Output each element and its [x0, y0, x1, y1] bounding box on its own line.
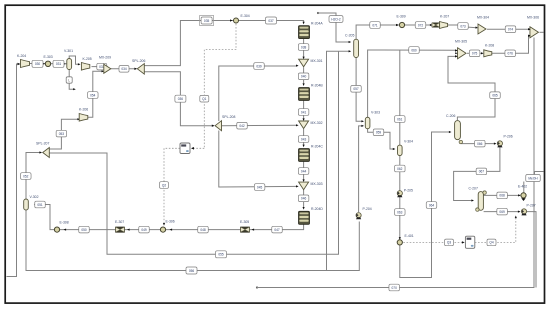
wire E-401 to C-206 feed: [400, 132, 451, 278]
svg-text:041: 041: [301, 110, 307, 114]
stream tag 040: [298, 73, 309, 80]
stream tag 048: [198, 226, 209, 233]
stream tag 056: [186, 267, 197, 274]
wire MX-301 to R-204B: [303, 67, 305, 85]
svg-text:E-401: E-401: [405, 234, 414, 238]
svg-text:MX-301: MX-301: [311, 59, 323, 63]
svg-text:071: 071: [372, 23, 378, 27]
svg-text:056: 056: [189, 269, 195, 273]
svg-text:K-205: K-205: [83, 57, 92, 61]
stream tag 072: [415, 22, 426, 29]
svg-text:C-206: C-206: [446, 114, 455, 118]
wire SPL-207 to C-205 feed: [49, 51, 338, 254]
wire SPL-208 to MX-303: [219, 131, 298, 188]
wire C-205 overhead to E-309: [356, 25, 398, 40]
wire R-204C to MX-303: [303, 155, 305, 181]
stream tag 068: [497, 192, 508, 199]
wire C-207 overhead to E-402: [484, 194, 520, 196]
svg-text:Q2: Q2: [162, 183, 166, 187]
stream tag 042: [237, 122, 248, 129]
wire K-204 to V-301 via 030 E-303 031: [30, 63, 67, 65]
stream tag 047: [272, 226, 283, 233]
compressor K-204: [21, 60, 30, 68]
svg-text:044: 044: [301, 169, 307, 173]
svg-text:V-301: V-301: [64, 49, 73, 53]
wire R-204A to MX-301: [303, 32, 305, 58]
wire V-302 vapor to SPL-207: [26, 153, 41, 199]
svg-text:052: 052: [23, 174, 29, 178]
stream tag 059: [373, 129, 384, 136]
wire fresh feed to K-204: [7, 64, 20, 277]
svg-text:057: 057: [353, 87, 359, 91]
stream tag 052: [21, 173, 32, 180]
svg-text:072: 072: [418, 23, 424, 27]
wire V-301 vapor to K-205: [69, 56, 79, 64]
svg-text:E-303: E-303: [44, 55, 53, 59]
column C-205: [354, 39, 359, 57]
valve E-307: [115, 227, 125, 233]
svg-text:046: 046: [301, 197, 307, 201]
splitter SPL-206: [137, 64, 144, 75]
reactor R-204B: [299, 88, 310, 101]
letdown box L on V-301 liquid: [66, 77, 72, 83]
compressor K-205: [81, 63, 89, 71]
mixer MX-209: [104, 64, 111, 73]
wire SPL-208 to MX-301: [219, 66, 298, 121]
stream tag 057: [351, 86, 362, 93]
mixer MX-302: [299, 121, 309, 129]
stream tag 053: [56, 130, 67, 137]
cooler E-402: [521, 193, 526, 198]
mixer MX-306: [530, 27, 539, 38]
wire V-303 vapor to MX-305: [368, 50, 457, 117]
svg-text:069: 069: [499, 210, 505, 214]
stream tag 054: [88, 92, 99, 99]
svg-text:E-308: E-308: [60, 221, 69, 225]
svg-text:K-207: K-207: [440, 15, 449, 19]
wire K-206 to MX-209 lower input: [88, 71, 103, 117]
svg-text:E-402: E-402: [518, 184, 527, 188]
wire controller to P-207 energy: [475, 217, 516, 243]
energy tag Q3: [445, 239, 454, 246]
svg-text:E-307: E-307: [115, 220, 124, 224]
wire MeOH product to border: [535, 172, 544, 175]
wire V-301 liquid purge: [69, 70, 74, 90]
wire controller to E-306 energy: [164, 148, 180, 224]
svg-text:040: 040: [301, 75, 307, 79]
energy tag Q2: [160, 182, 169, 189]
stream tag 049: [139, 226, 150, 233]
flash drum V-302: [24, 199, 29, 210]
svg-text:V-302: V-302: [30, 195, 39, 199]
svg-text:049: 049: [141, 228, 147, 232]
wire K-208 to MX-306 via 076: [492, 36, 530, 54]
wire MX-304 to MX-306 via 074: [487, 28, 530, 30]
svg-text:060: 060: [411, 48, 417, 52]
stream tag 069: [497, 208, 508, 215]
mixer MX-303: [299, 182, 309, 190]
wire C-206 overhead recycle to MX-305: [448, 56, 495, 120]
stream tag 033: [97, 63, 107, 70]
svg-text:048: 048: [200, 228, 206, 232]
node recycle stream origin: [256, 286, 258, 288]
wire SPL-207 to K-206: [49, 119, 78, 149]
wire P-204 to V-303 lower input: [359, 126, 363, 212]
wire MX-302 to R-204C: [303, 129, 305, 146]
svg-text:034: 034: [121, 67, 127, 71]
svg-text:Q3: Q3: [447, 241, 451, 245]
svg-text:075: 075: [472, 52, 478, 56]
svg-text:043: 043: [301, 137, 307, 141]
wire recycle riser to C-205 lower feed: [327, 51, 351, 270]
stream tag 066: [475, 140, 486, 147]
svg-text:H2O-2: H2O-2: [331, 17, 341, 21]
svg-text:068: 068: [499, 194, 505, 198]
valve before K-207: [432, 22, 440, 27]
stream tag 037: [266, 17, 277, 24]
svg-text:R-204C: R-204C: [311, 144, 323, 148]
svg-text:061: 061: [397, 117, 403, 121]
wire P-207 outlet down: [527, 212, 537, 288]
heater E-401: [397, 240, 402, 245]
svg-text:062: 062: [397, 167, 403, 171]
stream tag 031: [53, 60, 64, 67]
node H2O-2 feed origin: [317, 12, 319, 14]
wire SPL-206 to R-204A top via E-304: [144, 21, 304, 66]
svg-text:MX-303: MX-303: [311, 182, 323, 186]
stream tag MeOH: [526, 175, 541, 182]
svg-text:P-207: P-207: [527, 203, 536, 207]
svg-text:074: 074: [508, 27, 514, 31]
wire V-304 vapor to MX-305 line: [399, 50, 401, 146]
stream tag 076: [505, 50, 516, 57]
svg-text:036: 036: [178, 97, 184, 101]
svg-text:K-204: K-204: [17, 54, 26, 58]
stream tag 061: [395, 116, 406, 123]
svg-text:R-204A: R-204A: [311, 21, 323, 25]
wire V-304 bottoms to E-401 via P-205: [399, 155, 401, 240]
wire V-302 bottoms to P-204: [26, 211, 359, 271]
svg-text:E-309: E-309: [397, 15, 406, 19]
svg-text:P-206: P-206: [504, 135, 513, 139]
wire C-205 bottoms to V-303 upper input: [356, 58, 363, 122]
stream tag 065: [490, 92, 501, 99]
wire K-207 to MX-304 via 073: [448, 25, 477, 28]
energy tag Q4: [487, 239, 496, 246]
wire energy into controller unit: [192, 147, 204, 149]
heater E-308: [54, 227, 59, 232]
valve E-305: [240, 227, 250, 233]
stream tag 039: [254, 63, 265, 70]
svg-text:E-304: E-304: [241, 14, 250, 18]
svg-text:053: 053: [59, 132, 65, 136]
wire energy stream E-401 to controller: [403, 241, 463, 243]
stream tag 070: [389, 284, 400, 291]
svg-text:076: 076: [508, 52, 514, 56]
svg-text:055: 055: [218, 253, 224, 257]
stream tag 045: [254, 184, 265, 191]
svg-text:MX-305: MX-305: [455, 40, 467, 44]
svg-text:063: 063: [397, 210, 403, 214]
energy tag Q1: [200, 95, 209, 102]
cooler E-309: [399, 22, 404, 27]
reboiler circle of C-207: [476, 208, 479, 211]
cooler E-303: [45, 61, 50, 66]
splitter SPL-207: [43, 148, 50, 158]
svg-text:037: 037: [268, 19, 274, 23]
svg-text:035: 035: [204, 19, 210, 23]
wire E-309 to valve: [405, 24, 432, 26]
stream tag 071: [370, 22, 381, 29]
selection box around tag 035: [200, 16, 214, 26]
stream tag 055: [216, 251, 227, 258]
svg-text:C-205: C-205: [345, 34, 354, 38]
wire recycle to MX-306 bottom input: [257, 38, 534, 288]
wire E-402 to MeOH tag: [523, 182, 525, 193]
svg-text:039: 039: [256, 64, 262, 68]
stream tag 064: [426, 202, 437, 209]
svg-text:073: 073: [460, 24, 466, 28]
svg-text:K-208: K-208: [485, 44, 494, 48]
svg-text:070: 070: [392, 286, 398, 290]
column C-206: [455, 121, 461, 140]
mixer MX-305: [458, 48, 467, 59]
svg-text:MX-304: MX-304: [477, 16, 489, 20]
stream tag 050: [79, 226, 90, 233]
svg-text:L: L: [68, 78, 70, 82]
svg-text:066: 066: [477, 142, 483, 146]
svg-text:030: 030: [35, 62, 41, 66]
wire R-204D to V-302 via E-305 E-306 E-307 E-308: [35, 205, 304, 230]
svg-text:SPL-208: SPL-208: [222, 115, 235, 119]
wire C-207 bottoms to P-207: [484, 211, 520, 213]
controller unit for P-207: [465, 236, 474, 248]
reactor R-204A: [299, 26, 310, 39]
svg-text:059: 059: [376, 131, 382, 135]
stream tag 034: [119, 66, 129, 73]
stream tag 073: [458, 23, 469, 30]
svg-text:047: 047: [274, 228, 280, 232]
stream tag 046: [298, 195, 309, 202]
svg-text:V-303: V-303: [371, 111, 380, 115]
svg-text:038: 038: [301, 45, 307, 49]
wire C-206 to P-206: [460, 143, 495, 145]
stream tag 043: [298, 136, 309, 143]
flash drum V-304: [398, 145, 403, 156]
valve E-304: [234, 18, 239, 23]
svg-text:E-305: E-305: [240, 220, 249, 224]
stream tag 041: [298, 109, 309, 116]
stream tag 044: [298, 168, 309, 175]
svg-text:V-304: V-304: [404, 140, 413, 144]
svg-text:R-204B: R-204B: [311, 83, 323, 87]
svg-text:MeOH: MeOH: [528, 176, 538, 180]
stream tag 051: [35, 201, 46, 208]
column C-207: [478, 192, 483, 211]
wire MX-306 outlet: [540, 31, 544, 33]
svg-text:054: 054: [90, 93, 96, 97]
stream tag 074: [505, 26, 516, 33]
svg-text:MX-209: MX-209: [99, 55, 111, 59]
svg-text:P-205: P-205: [404, 189, 413, 193]
svg-text:E-306: E-306: [166, 220, 175, 224]
stream tag H2O-2: [329, 16, 343, 23]
controller Q1 unit: [180, 143, 190, 154]
separator V-301: [67, 59, 72, 70]
wire MX-303 to R-204D: [303, 190, 305, 209]
stream tag 038: [298, 44, 309, 51]
svg-text:064: 064: [429, 203, 435, 207]
svg-text:C-207: C-207: [469, 186, 478, 190]
svg-text:031: 031: [56, 62, 62, 66]
wire energy stream E-304 to controller Q1: [204, 24, 236, 149]
splitter SPL-208: [215, 121, 221, 131]
stream tag 030: [32, 60, 43, 67]
flash drum V-303: [365, 117, 370, 129]
wire SPL-206 to SPL-208: [144, 72, 214, 126]
wire P-206 to C-207 feed: [454, 147, 500, 200]
stream tag 075: [469, 50, 480, 57]
mixer MX-301: [299, 59, 309, 67]
wire valve to K-207: [439, 24, 440, 26]
svg-text:Q1: Q1: [202, 97, 206, 101]
svg-text:SPL-207: SPL-207: [36, 142, 49, 146]
condenser circle of C-207: [483, 191, 486, 194]
wire K-205 to MX-209: [92, 66, 104, 68]
pump P-205: [397, 191, 402, 198]
heater E-306: [160, 227, 165, 232]
svg-text:Q4: Q4: [489, 241, 493, 245]
wire MX-209 to SPL-206: [111, 68, 136, 70]
wire V-303 bottoms to V-304: [368, 129, 395, 149]
compressor K-208: [484, 50, 492, 57]
reboiler circle of C-206: [459, 140, 462, 143]
stream tag 035: [201, 17, 212, 24]
stream tag 067: [476, 168, 487, 175]
svg-text:067: 067: [479, 170, 485, 174]
stream tag 060: [409, 47, 420, 54]
wire SPL-208 to MX-302: [222, 124, 298, 126]
svg-text:MX-302: MX-302: [311, 121, 323, 125]
svg-text:042: 042: [239, 124, 245, 128]
stream tag 036: [175, 95, 186, 102]
svg-text:P-204: P-204: [363, 207, 372, 211]
svg-text:MX-306: MX-306: [527, 16, 539, 20]
stream tag 062: [395, 165, 406, 172]
reactor R-204C: [299, 149, 310, 162]
svg-text:045: 045: [257, 185, 263, 189]
svg-text:065: 065: [492, 93, 498, 97]
compressor K-207: [440, 22, 448, 29]
wire H2O-2 to C-205 upper feed: [318, 13, 350, 42]
svg-text:K-206: K-206: [79, 108, 88, 112]
svg-text:051: 051: [37, 203, 43, 207]
wire MX-305 to K-208: [467, 52, 483, 54]
pump P-204: [356, 213, 361, 220]
svg-text:SPL-206: SPL-206: [132, 59, 145, 63]
pump P-207: [521, 209, 526, 216]
svg-text:050: 050: [81, 228, 87, 232]
stream tag 063: [395, 209, 406, 216]
mixer MX-304: [478, 24, 486, 34]
pump P-206: [497, 141, 502, 148]
svg-text:R-204D: R-204D: [311, 207, 323, 211]
compressor K-206: [79, 114, 88, 122]
wire R-204B to MX-302: [303, 94, 305, 120]
reactor R-204D: [299, 211, 310, 224]
